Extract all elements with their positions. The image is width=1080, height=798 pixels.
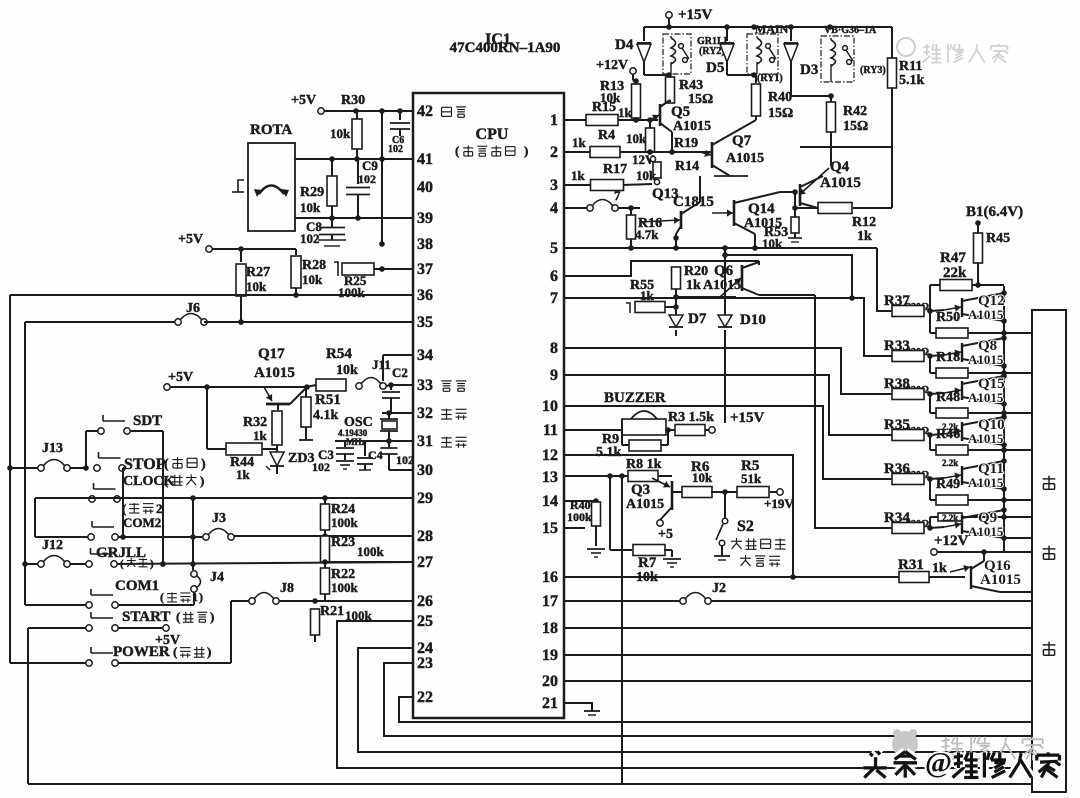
svg-text:ZD3: ZD3 (288, 451, 314, 466)
svg-text:10k: 10k (246, 279, 267, 294)
svg-text:R4: R4 (598, 128, 615, 143)
svg-text:33: 33 (417, 377, 433, 394)
svg-text:C1815: C1815 (673, 194, 714, 210)
svg-text:D10: D10 (740, 312, 766, 328)
svg-text:23: 23 (417, 655, 433, 672)
svg-text:R8 1k: R8 1k (626, 457, 662, 472)
svg-text:START: START (122, 609, 170, 625)
svg-text:R54: R54 (326, 346, 352, 362)
svg-text:(RY1): (RY1) (757, 73, 783, 84)
svg-text:R29: R29 (300, 185, 324, 200)
svg-text:10k: 10k (302, 272, 323, 287)
svg-text:4: 4 (550, 200, 558, 217)
svg-text:22k: 22k (943, 265, 967, 281)
svg-text:+5V: +5V (178, 232, 203, 247)
svg-text:31: 31 (417, 433, 433, 450)
svg-text:100k: 100k (357, 544, 385, 559)
svg-text:R51: R51 (315, 392, 341, 408)
svg-text:@: @ (925, 747, 952, 779)
svg-text:5.1k: 5.1k (596, 445, 622, 460)
svg-text:12: 12 (542, 447, 558, 464)
svg-text:102: 102 (300, 231, 320, 246)
svg-text:J6: J6 (186, 301, 200, 316)
svg-text:D3: D3 (800, 62, 818, 78)
svg-text:A1015: A1015 (626, 497, 664, 512)
svg-text:2.2k: 2.2k (942, 422, 958, 432)
svg-text:1k: 1k (571, 168, 586, 183)
svg-text:51k: 51k (741, 471, 762, 486)
svg-text:35: 35 (417, 314, 433, 331)
svg-text:28: 28 (417, 528, 433, 545)
svg-text:+5V: +5V (291, 93, 316, 108)
svg-text:(: ( (173, 644, 177, 659)
svg-text:VB·G36–1A: VB·G36–1A (824, 25, 877, 36)
svg-text:): ) (201, 457, 206, 472)
svg-text:J8: J8 (280, 581, 294, 596)
svg-text:D4: D4 (615, 37, 634, 53)
svg-text:J12: J12 (42, 538, 63, 553)
svg-text:R27: R27 (246, 265, 270, 280)
svg-text:R30: R30 (341, 93, 365, 108)
svg-text:40: 40 (417, 179, 433, 196)
svg-text:R40: R40 (768, 90, 792, 105)
svg-text:R11: R11 (899, 59, 922, 74)
svg-text:1k: 1k (932, 561, 947, 576)
svg-text:R7: R7 (638, 555, 657, 571)
svg-text:36: 36 (417, 287, 433, 304)
svg-text:Q17: Q17 (258, 346, 285, 362)
svg-text:11: 11 (543, 422, 558, 439)
svg-text:D7: D7 (688, 311, 707, 327)
svg-text:(: ( (160, 590, 164, 604)
svg-text:26: 26 (417, 593, 433, 610)
svg-text:C4: C4 (368, 448, 383, 462)
svg-text:100k: 100k (331, 515, 359, 530)
svg-text:2.2k: 2.2k (942, 458, 958, 468)
svg-text:+15V: +15V (730, 410, 765, 426)
svg-text:41: 41 (417, 151, 433, 168)
svg-text:R28: R28 (302, 258, 326, 273)
svg-text:STOP: STOP (124, 456, 166, 473)
svg-text:22: 22 (417, 689, 433, 706)
svg-text:7: 7 (550, 290, 558, 307)
svg-text:R3 1.5k: R3 1.5k (668, 410, 714, 425)
svg-text:R20: R20 (684, 264, 708, 279)
svg-text:1k: 1k (640, 288, 655, 303)
svg-text:R14: R14 (675, 159, 699, 174)
svg-text:15Ω: 15Ω (768, 106, 793, 121)
svg-text:Q6: Q6 (714, 263, 734, 279)
svg-text:C2: C2 (392, 365, 408, 380)
svg-text:10k: 10k (626, 131, 647, 146)
svg-text:ROTA: ROTA (250, 122, 292, 138)
svg-text:J11: J11 (372, 357, 391, 372)
svg-text:J13: J13 (42, 441, 63, 456)
svg-text:7: 7 (614, 188, 621, 203)
svg-text:(: ( (176, 609, 180, 624)
svg-text:(: ( (164, 457, 169, 472)
svg-text:1k: 1k (618, 105, 633, 120)
svg-text:Q7: Q7 (732, 133, 752, 149)
svg-text:9: 9 (550, 367, 558, 384)
svg-text:10k: 10k (636, 168, 657, 183)
svg-text:4.1k: 4.1k (313, 408, 339, 423)
svg-text:Q3: Q3 (631, 482, 650, 498)
svg-text:A1015: A1015 (968, 352, 1004, 367)
svg-text:102: 102 (388, 144, 403, 155)
svg-text:42: 42 (417, 103, 433, 120)
svg-text:COM1: COM1 (115, 578, 159, 594)
svg-text:10k: 10k (336, 363, 358, 378)
svg-text:18: 18 (542, 620, 558, 637)
svg-text:5: 5 (550, 240, 558, 257)
svg-text:15Ω: 15Ω (688, 92, 713, 107)
svg-text:R45: R45 (986, 231, 1010, 246)
svg-text:): ) (199, 590, 203, 604)
svg-text:13: 13 (542, 469, 558, 486)
svg-text:15Ω: 15Ω (843, 119, 868, 134)
svg-text:3: 3 (550, 177, 558, 194)
svg-text:(: ( (455, 143, 459, 158)
svg-text:R12: R12 (852, 215, 876, 230)
svg-text:47C400RN–1A90: 47C400RN–1A90 (450, 40, 561, 56)
svg-text:C9: C9 (362, 158, 378, 173)
svg-text:R42: R42 (843, 104, 867, 119)
svg-text:34: 34 (417, 347, 433, 364)
svg-text:2.2k: 2.2k (942, 513, 958, 523)
svg-text:102: 102 (312, 460, 330, 474)
svg-text:102: 102 (396, 453, 414, 467)
svg-text:1k: 1k (857, 229, 872, 244)
svg-text:A1015: A1015 (980, 572, 1021, 588)
svg-text:A1015: A1015 (968, 524, 1004, 539)
svg-text:+5V: +5V (168, 370, 193, 385)
svg-text:+19V: +19V (764, 496, 794, 511)
svg-text:1k: 1k (253, 428, 268, 443)
svg-text:10k: 10k (330, 126, 351, 141)
svg-text:100k: 100k (338, 285, 366, 300)
svg-text:10k: 10k (692, 470, 713, 485)
svg-text:19: 19 (542, 647, 558, 664)
svg-text:R19: R19 (674, 136, 698, 151)
svg-text:R17: R17 (603, 162, 627, 177)
svg-text:MAIN: MAIN (755, 22, 789, 36)
svg-text:(: ( (122, 501, 126, 516)
svg-text:14: 14 (542, 493, 558, 510)
svg-text:17: 17 (542, 593, 558, 610)
svg-text:A1015: A1015 (968, 475, 1004, 490)
svg-text:CPU: CPU (476, 126, 509, 143)
svg-text:30: 30 (417, 462, 433, 479)
svg-text:COM2: COM2 (123, 515, 161, 530)
svg-text:R23: R23 (331, 535, 355, 550)
svg-text:100k: 100k (567, 510, 592, 524)
svg-text:A1015: A1015 (968, 390, 1004, 405)
svg-text:A1015: A1015 (673, 119, 711, 134)
svg-text:+12V: +12V (596, 58, 628, 73)
svg-text:D5: D5 (706, 60, 724, 76)
svg-text:B1(6.4V): B1(6.4V) (966, 204, 1023, 220)
svg-text:+12V: +12V (934, 533, 969, 549)
svg-text:2: 2 (156, 501, 163, 516)
svg-text:20: 20 (542, 673, 558, 690)
svg-text:37: 37 (417, 261, 433, 278)
svg-text:16: 16 (542, 569, 558, 586)
svg-text:J4: J4 (210, 570, 224, 585)
svg-text:R15: R15 (592, 100, 616, 115)
svg-text:10: 10 (542, 398, 558, 415)
svg-text:BUZZER: BUZZER (604, 390, 666, 406)
svg-text:Q4: Q4 (830, 159, 850, 175)
svg-text:POWER: POWER (113, 644, 170, 660)
svg-text:1: 1 (192, 590, 198, 604)
svg-text:A1015: A1015 (726, 151, 764, 166)
svg-text:15: 15 (542, 520, 558, 537)
svg-text:39: 39 (417, 210, 433, 227)
svg-text:102: 102 (358, 172, 376, 186)
svg-text:R47: R47 (940, 250, 966, 266)
svg-text:): ) (210, 609, 214, 624)
svg-text:100k: 100k (331, 580, 359, 595)
svg-text:R43: R43 (679, 78, 703, 93)
svg-text:25: 25 (417, 613, 433, 630)
svg-text:29: 29 (417, 490, 433, 507)
svg-text:A1015: A1015 (968, 431, 1004, 446)
svg-text:R50: R50 (936, 310, 960, 325)
svg-text:1k: 1k (686, 278, 701, 293)
svg-text:10k: 10k (300, 200, 321, 215)
svg-text:8: 8 (550, 340, 558, 357)
svg-text:1: 1 (550, 112, 558, 129)
svg-text:SDT: SDT (133, 413, 162, 429)
svg-text:32: 32 (417, 405, 433, 422)
svg-text:S2: S2 (737, 518, 754, 535)
svg-text:R31: R31 (898, 557, 924, 573)
svg-text:J3: J3 (212, 511, 226, 526)
svg-text:2: 2 (550, 144, 558, 161)
svg-text:+5: +5 (658, 527, 673, 542)
svg-text:+15V: +15V (678, 7, 713, 23)
svg-text:5.1k: 5.1k (899, 73, 925, 88)
svg-text:4.7k: 4.7k (635, 227, 659, 242)
svg-text:(: ( (164, 473, 168, 488)
svg-text:): ) (207, 644, 211, 659)
svg-text:): ) (200, 473, 204, 488)
svg-text:27: 27 (417, 554, 433, 571)
svg-text:1k: 1k (236, 467, 251, 482)
svg-text:R21: R21 (320, 604, 344, 619)
svg-text:): ) (524, 143, 528, 158)
svg-text:21: 21 (542, 695, 558, 712)
svg-text:J2: J2 (712, 581, 726, 596)
svg-text:Q5: Q5 (671, 104, 690, 120)
svg-text:38: 38 (417, 236, 433, 253)
svg-text:1k: 1k (572, 135, 587, 150)
svg-text:A1015: A1015 (968, 307, 1004, 322)
svg-text:Q14: Q14 (748, 201, 775, 217)
svg-text:A1015: A1015 (254, 365, 295, 381)
svg-text:(RY3): (RY3) (860, 65, 886, 76)
svg-text:6: 6 (550, 268, 558, 285)
svg-text:A1015: A1015 (820, 175, 861, 191)
